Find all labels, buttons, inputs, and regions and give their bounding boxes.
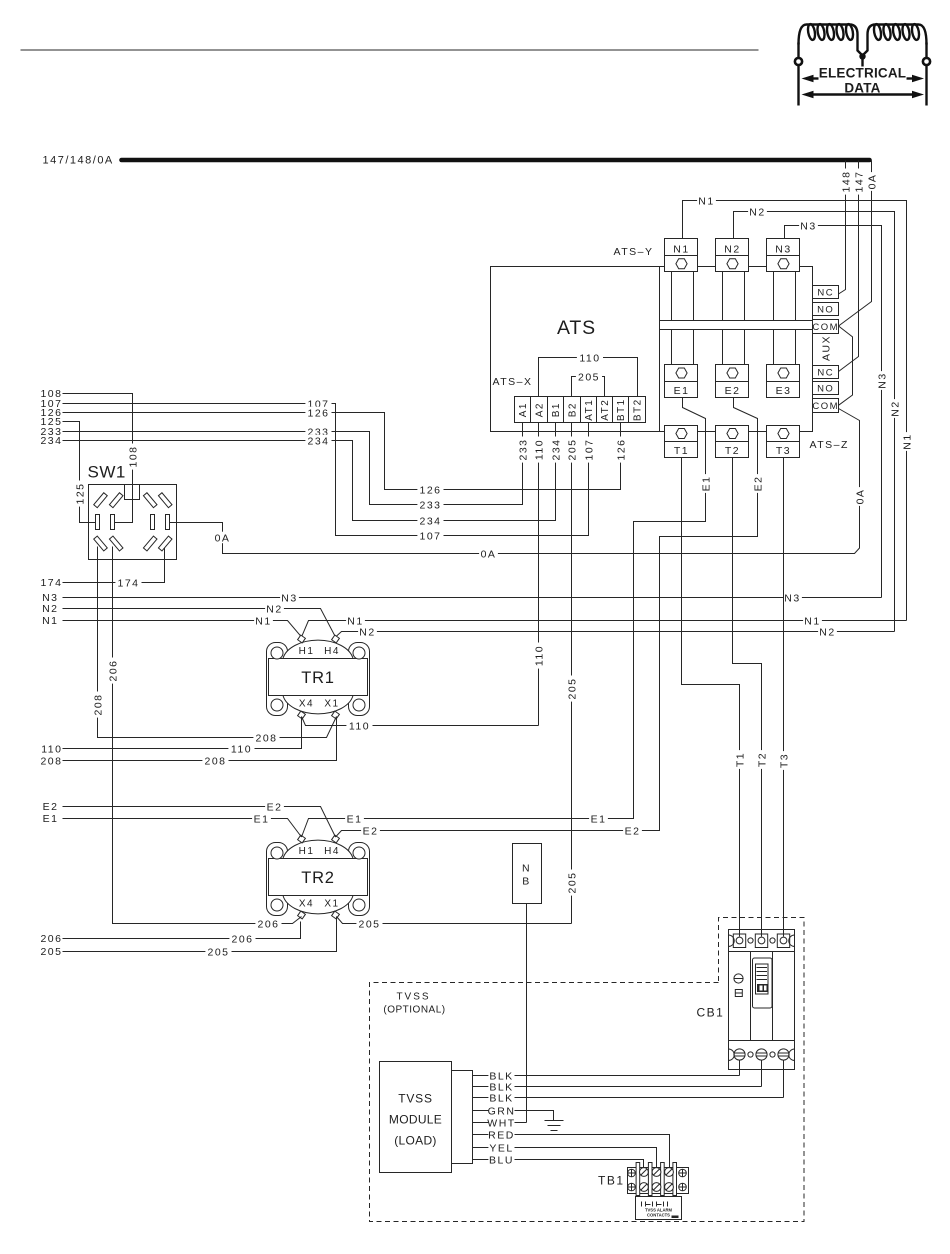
aux contact NC (813, 286, 839, 299)
wire 205 TR2 X1 to ATS B2 (337, 917, 572, 931)
jumper 110 A2-BT2 (539, 352, 638, 397)
AUX label (821, 335, 833, 361)
neutral block N B (513, 844, 542, 904)
wire T2 to CB1 (733, 458, 769, 936)
svg-text:E2: E2 (363, 825, 379, 837)
terminal N1 (665, 239, 698, 272)
wire 110 left rail to TR1 X4 (63, 717, 302, 756)
wire N1 top (683, 195, 914, 621)
wire BLK (473, 1092, 784, 1105)
feeder bus thick wire (122, 158, 870, 163)
wire BLK (473, 1081, 762, 1094)
wire 206 SW1 blade to TR2 X4 (107, 547, 302, 931)
svg-text:NC: NC (817, 287, 834, 298)
wire N2 top (734, 206, 902, 632)
svg-text:ATS–Z: ATS–Z (810, 439, 849, 451)
svg-text:ATS: ATS (557, 317, 596, 339)
svg-text:X1: X1 (324, 899, 339, 910)
wire 108 to SW1 pin2 (63, 394, 140, 523)
svg-text:E1: E1 (254, 813, 270, 825)
SW1 pin at 112 (111, 515, 115, 530)
svg-text:110: 110 (231, 743, 252, 755)
svg-text:208: 208 (204, 755, 226, 767)
svg-text:N: N (522, 863, 531, 875)
wire 107 AT1 to crossover (63, 398, 596, 543)
SW1 blade bottom at 164.7 (158, 536, 172, 551)
SW1 blade top at 149.7 (143, 493, 157, 508)
wire 205 left rail to TR2 X1 (63, 917, 337, 959)
ATS contact bus bars (660, 320, 813, 322)
svg-text:N1: N1 (698, 195, 714, 207)
svg-text:107: 107 (583, 438, 595, 460)
SW1 blade top at 115.7 (109, 493, 123, 508)
wire T1 to CB1 (682, 458, 747, 936)
svg-text:TR1: TR1 (301, 669, 335, 687)
svg-text:N3: N3 (775, 244, 791, 256)
terminal T3 (767, 426, 800, 458)
svg-text:(OPTIONAL): (OPTIONAL) (383, 1005, 445, 1016)
svg-text:N2: N2 (359, 626, 375, 638)
terminal E1 (665, 365, 698, 398)
aux contact NO (813, 303, 839, 316)
terminal A2 (531, 397, 548, 423)
svg-text:H1: H1 (299, 646, 315, 657)
wire 233 A1 to crossover (63, 423, 530, 512)
svg-text:205: 205 (578, 371, 600, 383)
svg-text:174: 174 (40, 577, 62, 589)
svg-text:110: 110 (41, 744, 62, 756)
pole conductors at 732 (723, 272, 745, 366)
svg-text:H4: H4 (324, 846, 340, 857)
svg-text:E2: E2 (267, 801, 283, 813)
wire E1 right from TR2 H1 to ATS E1 (302, 398, 713, 838)
svg-text:NC: NC (817, 367, 834, 378)
svg-text:126: 126 (615, 438, 627, 460)
wire 0A drop to COM (839, 161, 879, 327)
svg-text:110: 110 (349, 720, 370, 732)
svg-text:H1: H1 (299, 846, 315, 857)
wire E2 left to TR2 H4 (63, 801, 336, 837)
terminal N2 (716, 239, 749, 272)
svg-text:T2: T2 (725, 445, 740, 457)
svg-text:E1: E1 (700, 476, 712, 492)
svg-text:205: 205 (566, 871, 578, 893)
aux contact COM (812, 320, 839, 334)
svg-text:DATA: DATA (844, 81, 880, 96)
SW1 blade bottom at 149.7 (143, 536, 157, 551)
SW1 pin at 97 (96, 515, 100, 530)
terminal AT2 (597, 397, 613, 423)
wire N1 left to TR1 H1 (63, 615, 302, 637)
terminal T1 (665, 426, 698, 458)
wire N3 rail (63, 592, 882, 605)
svg-text:110: 110 (533, 645, 545, 666)
svg-text:ATS–Y: ATS–Y (614, 246, 654, 258)
svg-text:YEL: YEL (489, 1142, 513, 1154)
svg-text:NO: NO (817, 304, 834, 315)
svg-text:126: 126 (307, 407, 329, 419)
svg-text:CB1: CB1 (697, 1006, 725, 1020)
svg-text:206: 206 (40, 933, 62, 945)
terminal B1 (548, 397, 564, 423)
svg-text:107: 107 (419, 530, 441, 542)
svg-text:N2: N2 (42, 603, 58, 615)
svg-text:T2: T2 (756, 752, 768, 767)
svg-text:WHT: WHT (487, 1117, 515, 1129)
wire YEL (473, 1142, 657, 1172)
electrical data coil icon (795, 24, 930, 106)
wire 147 drop to NC (839, 161, 866, 372)
svg-text:H4: H4 (324, 646, 340, 657)
SW1 blade bottom at 100 (94, 536, 108, 551)
svg-text:108: 108 (40, 388, 62, 400)
AUX contact jumper COM-COM (839, 326, 853, 405)
svg-text:110: 110 (533, 439, 545, 460)
svg-text:234: 234 (307, 435, 329, 447)
TVSS optional dashed boundary (370, 918, 805, 1222)
svg-text:205: 205 (358, 918, 380, 930)
jumper 205 B2-AT2 (572, 371, 605, 397)
svg-text:147: 147 (853, 170, 865, 192)
wire BLK (473, 1070, 740, 1083)
svg-text:E1: E1 (347, 813, 363, 825)
svg-text:N2: N2 (889, 400, 901, 416)
svg-text:234: 234 (419, 515, 441, 527)
svg-text:RED: RED (488, 1129, 515, 1141)
wire 148 drop to NC (839, 161, 853, 295)
aux contact COM (812, 399, 839, 413)
svg-text:BLK: BLK (489, 1092, 513, 1104)
svg-text:234: 234 (550, 438, 562, 460)
svg-text:174: 174 (117, 577, 139, 589)
wire T3 to CB1 (778, 458, 791, 936)
svg-text:SW1: SW1 (88, 463, 126, 482)
terminal A1 (515, 397, 531, 423)
ATS enclosure box (491, 267, 813, 432)
svg-text:N3: N3 (800, 220, 816, 232)
svg-text:208: 208 (255, 732, 277, 744)
wire 0A from COM to SW1 (170, 409, 867, 561)
TVSS alarm contacts box (636, 1197, 682, 1220)
wire BLU (473, 1154, 644, 1172)
wire WHT (473, 1117, 527, 1130)
svg-text:205: 205 (566, 677, 578, 699)
svg-text:N2: N2 (266, 603, 282, 615)
wire 110 TR1 X4 to ATS A2 (302, 717, 539, 733)
svg-text:A1: A1 (518, 402, 529, 417)
terminal AT1 (581, 397, 597, 423)
wire N/B to WHT (526, 904, 528, 1123)
header rule line (21, 49, 759, 51)
svg-text:205: 205 (40, 946, 62, 958)
svg-text:206: 206 (107, 659, 119, 681)
svg-text:T3: T3 (776, 445, 791, 457)
wire 110 A2 to TR1 X1 area (533, 423, 546, 726)
terminal BT2 (629, 397, 646, 423)
svg-text:N2: N2 (749, 206, 765, 218)
svg-text:E1: E1 (43, 813, 59, 825)
svg-text:T1: T1 (674, 445, 689, 457)
wire 126 BT1 to crossover (63, 407, 628, 497)
svg-text:0A: 0A (481, 548, 497, 560)
svg-text:X4: X4 (299, 699, 314, 710)
svg-text:233: 233 (419, 499, 441, 511)
svg-text:E2: E2 (752, 476, 764, 492)
wire GRN (473, 1105, 554, 1121)
svg-text:B: B (522, 876, 531, 888)
svg-text:A2: A2 (535, 402, 546, 417)
wire 234 B1 to crossover (63, 423, 563, 528)
svg-text:ATS–X: ATS–X (493, 376, 533, 388)
pole conductors at 681 (672, 272, 694, 366)
wire N3 top (785, 220, 889, 598)
wire CB1 bottom exits (740, 1061, 784, 1098)
svg-text:N1: N1 (804, 615, 820, 627)
svg-text:233: 233 (517, 438, 529, 460)
wire 174 (63, 548, 165, 590)
terminal T2 (716, 426, 749, 458)
svg-text:148: 148 (840, 170, 852, 192)
svg-text:MODULE: MODULE (389, 1113, 442, 1127)
switch SW1 box (89, 485, 177, 560)
svg-text:N1: N1 (901, 433, 913, 449)
svg-text:AT1: AT1 (584, 399, 595, 421)
circuit breaker CB1 (729, 930, 795, 1070)
wire N2 right from TR1 H4 (336, 626, 895, 639)
terminal E2 (716, 365, 749, 398)
wire E2 right from TR2 H4 to ATS E2 (336, 398, 765, 838)
svg-text:CONTACTS: CONTACTS (647, 1213, 670, 1218)
svg-text:T1: T1 (734, 752, 746, 767)
svg-text:E1: E1 (591, 813, 607, 825)
svg-text:E2: E2 (725, 385, 741, 397)
svg-text:N3: N3 (784, 592, 800, 604)
aux contact NO (813, 382, 839, 395)
svg-text:234: 234 (40, 435, 62, 447)
svg-text:B2: B2 (568, 402, 579, 417)
SW1 blade top at 164.7 (158, 493, 172, 508)
svg-text:TR2: TR2 (301, 869, 335, 887)
svg-text:NO: NO (817, 383, 834, 394)
svg-text:N2: N2 (819, 626, 835, 638)
SW1 pin at 152.5 (151, 515, 155, 530)
svg-text:208: 208 (92, 693, 104, 715)
svg-text:205: 205 (566, 438, 578, 460)
SW1 pin at 167 (166, 515, 170, 530)
svg-text:208: 208 (40, 756, 62, 768)
svg-text:X4: X4 (299, 899, 314, 910)
svg-text:TVSS: TVSS (396, 992, 430, 1003)
TVSS module connector (452, 1071, 473, 1164)
svg-text:0A: 0A (866, 174, 878, 190)
svg-text:N1: N1 (673, 244, 689, 256)
svg-text:X1: X1 (324, 699, 339, 710)
svg-text:AT2: AT2 (600, 399, 611, 421)
svg-text:N3: N3 (281, 592, 297, 604)
svg-text:N3: N3 (876, 372, 888, 388)
svg-text:E3: E3 (776, 385, 792, 397)
wire 205 B2 down to TR2 (566, 423, 579, 924)
svg-text:N2: N2 (724, 244, 740, 256)
svg-text:B1: B1 (551, 402, 562, 417)
wire E1 left to TR2 H1 (63, 813, 302, 837)
svg-text:ELECTRICAL: ELECTRICAL (819, 66, 907, 81)
svg-text:147/148/0A: 147/148/0A (43, 155, 114, 167)
svg-text:TVSS: TVSS (398, 1092, 433, 1106)
terminal N3 (767, 239, 800, 272)
svg-text:COM: COM (812, 322, 839, 333)
svg-text:E2: E2 (625, 825, 641, 837)
transformer TR2 (267, 835, 370, 919)
terminal E3 (767, 365, 800, 398)
svg-text:206: 206 (257, 918, 279, 930)
TVSS module box (380, 1062, 452, 1173)
svg-text:GRN: GRN (488, 1105, 516, 1117)
svg-text:BT1: BT1 (616, 398, 627, 421)
wire 206 left rail to TR2 X4 (63, 922, 301, 946)
wire N1 right from TR1 H1 (302, 615, 907, 637)
terminal BT1 (613, 397, 629, 423)
aux contact NC (813, 366, 839, 379)
svg-text:N1: N1 (42, 615, 58, 627)
svg-text:(LOAD): (LOAD) (394, 1134, 436, 1148)
svg-text:TB1: TB1 (598, 1174, 625, 1188)
svg-text:T3: T3 (778, 753, 790, 768)
svg-text:110: 110 (579, 352, 600, 364)
svg-text:COM: COM (812, 401, 839, 412)
pole conductors at 783 (774, 272, 796, 366)
svg-text:206: 206 (231, 933, 253, 945)
wire 208 SW1 blade to TR1 X1 (92, 547, 337, 745)
wire RED (473, 1129, 670, 1172)
svg-text:108: 108 (127, 445, 139, 467)
SW1 blade bottom at 115.7 (109, 536, 123, 551)
wire N2 left to TR1 H4 (63, 603, 336, 637)
svg-text:AUX: AUX (821, 335, 833, 361)
svg-text:205: 205 (207, 946, 229, 958)
svg-text:125: 125 (40, 416, 62, 428)
svg-text:N1: N1 (255, 615, 271, 627)
SW1 notch (125, 485, 140, 500)
wire 208 left rail to TR1 X1 (63, 717, 337, 768)
wire 125 to SW1 pin1 (63, 422, 96, 523)
transformer TR1 (267, 635, 370, 719)
terminal block TB1 (628, 1163, 689, 1196)
SW1 blade top at 100 (94, 493, 108, 508)
svg-text:0A: 0A (215, 532, 231, 544)
svg-text:BLU: BLU (489, 1154, 514, 1166)
svg-text:125: 125 (74, 482, 86, 504)
terminal B2 (564, 397, 581, 423)
svg-text:E2: E2 (43, 801, 59, 813)
svg-text:BT2: BT2 (633, 398, 644, 421)
ground (545, 1121, 564, 1131)
svg-text:126: 126 (419, 484, 441, 496)
svg-text:0A: 0A (854, 489, 866, 505)
svg-text:E1: E1 (674, 385, 690, 397)
